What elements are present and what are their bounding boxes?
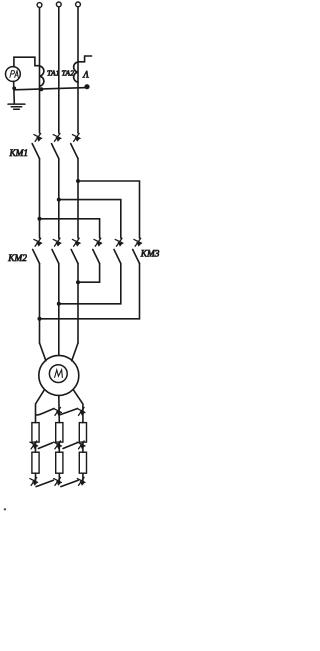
wire KM3 b out to T2 — [59, 264, 121, 304]
node L3 feeder tap — [76, 179, 80, 183]
svg-text:КМ2: КМ2 — [7, 254, 27, 264]
wire R2a stub — [35, 473, 37, 480]
wire phase L1 upper — [39, 8, 41, 133]
svg-text:Λ: Λ — [82, 69, 89, 79]
contact rowA chevron col2 — [54, 407, 62, 415]
wire phase L2 upper — [58, 7, 60, 133]
contact rowB chevron col1 — [30, 441, 38, 449]
node bus end blob — [84, 84, 89, 89]
resistor R2b — [56, 452, 63, 473]
wire feeder L3 to KM3 c — [78, 181, 140, 238]
contact rowA bridge blade 1-2 — [36, 409, 54, 415]
contact rowA bridge blade 2-3 — [60, 409, 78, 415]
contact rowB chevron col2 — [54, 441, 62, 449]
wire secondary bus — [14, 88, 87, 90]
resistor R2c — [79, 452, 86, 473]
contactor KM3 contact c — [133, 238, 142, 263]
contact rowC bridge blade 1-2 — [36, 480, 53, 486]
contact rowB chevron col3 — [77, 441, 85, 449]
contact rowC bridge blade 2-3 — [61, 480, 78, 486]
wire rotor lead 2 — [58, 395, 61, 422]
resistor R1c — [79, 423, 86, 443]
motor M rotor circle — [49, 365, 67, 383]
wire R1a to R2a — [35, 442, 37, 452]
wire stator funnel left — [40, 343, 46, 361]
resistor R2a — [32, 452, 39, 473]
current transformer TA2 — [74, 62, 78, 82]
wire stator funnel mid — [58, 343, 60, 355]
node bus TA1 junction — [39, 87, 43, 91]
contact rowC chevron col2 — [54, 477, 62, 485]
contactor KM2 contact a — [33, 238, 42, 263]
node T3 join — [76, 280, 80, 284]
contactor KM1 contact b — [52, 133, 61, 158]
wire feeder L2 to KM3 b — [59, 200, 121, 238]
contact rowB bridge blade 2-3 — [63, 443, 77, 449]
ground — [8, 104, 25, 109]
node PA bus junction — [12, 86, 16, 90]
node T1 join — [38, 317, 42, 321]
wire R1b to R2b — [58, 442, 60, 452]
motor M stator circle — [39, 355, 79, 395]
wire stator funnel right — [72, 343, 78, 361]
terminal L1 — [37, 3, 42, 8]
wire motor lead T2 — [58, 264, 60, 344]
wire TA2 secondary stub — [78, 56, 92, 62]
terminal L2 — [56, 2, 61, 7]
ammeter PA — [5, 67, 20, 82]
wire R2b stub — [58, 473, 60, 480]
wire KM3 a out to T3 — [78, 264, 100, 283]
contactor KM1 contact a — [32, 133, 41, 158]
label M — [55, 370, 63, 378]
svg-text:КМ3: КМ3 — [140, 249, 160, 259]
svg-text:ТА2: ТА2 — [62, 69, 75, 78]
resistor R1a — [32, 423, 39, 443]
wire motor lead T1 — [39, 264, 41, 344]
contactor KM2 contact b — [52, 238, 61, 263]
contact rowA chevron col3 — [77, 407, 85, 415]
node L1 feeder tap — [38, 217, 42, 221]
wire L3 mid — [77, 159, 79, 238]
wire motor lead T3 — [77, 264, 79, 344]
contact rowB bridge blade 1-2 — [38, 443, 52, 449]
svg-text:ТА1: ТА1 — [47, 69, 60, 78]
wire feeder L1 to KM3 a — [40, 219, 100, 238]
wire KM3 c out to T1 — [40, 264, 140, 319]
speck artifact — [4, 508, 6, 510]
node T2 join — [57, 302, 61, 306]
wire R2c stub — [82, 473, 84, 480]
wire L1 mid — [39, 159, 41, 238]
wire phase L3 upper — [77, 7, 79, 133]
wire PA bottom to ground — [13, 81, 16, 103]
contact rowC chevron col3 — [77, 477, 85, 485]
current transformer TA1 — [40, 66, 44, 86]
resistor R1b — [56, 423, 63, 443]
contactor KM3 contact a — [93, 238, 102, 263]
wire PA top to TA1 secondary — [14, 57, 40, 66]
wire L2 mid — [58, 159, 60, 238]
wire R1c to R2c — [82, 442, 84, 452]
contactor KM3 contact b — [114, 238, 123, 263]
contact rowC chevron col1 — [30, 477, 38, 485]
node L2 feeder tap — [57, 198, 61, 202]
wire rotor lead 1 — [36, 390, 45, 423]
contactor KM2 contact c — [71, 238, 80, 263]
wire rotor lead 3 — [73, 390, 83, 423]
svg-text:КМ1: КМ1 — [9, 149, 29, 159]
terminal L3 — [76, 2, 81, 7]
contactor KM1 contact c — [71, 133, 80, 158]
